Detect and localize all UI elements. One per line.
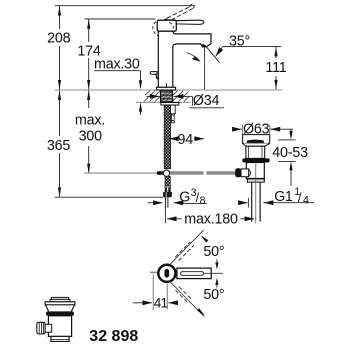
hose collar above nut [165, 186, 171, 192]
flexible supply hose (braided lower) [165, 176, 170, 186]
svg-text:max.: max. [75, 112, 105, 128]
top view: lever [177, 268, 223, 279]
label 35 degrees with leader [216, 34, 281, 57]
top view: rod stub left [150, 271, 157, 273]
side knob stem [45, 324, 52, 332]
pop-up pull rod knob behind body [150, 72, 166, 88]
top view: lowered lever dashed at 50 deg down [171, 283, 205, 317]
drain lower body [246, 163, 264, 179]
label diameter 34 with leader [147, 93, 225, 109]
top view: cartridge pill [165, 269, 170, 278]
faucet cartridge cap [157, 20, 176, 31]
drain flange cylinder [243, 135, 270, 144]
threaded shank through deck [161, 90, 173, 102]
extension line bottom of hoses (365 ref) [55, 196, 163, 198]
extension line 174 ref [85, 18, 156, 20]
O-ring [46, 311, 74, 315]
aerator stream direction line (vertical) [204, 46, 206, 90]
dimension 94 (spout reach) [169, 132, 204, 148]
top view: raised lever dashed at 50 deg up [170, 230, 208, 264]
pop-up rod under deck [171, 105, 176, 123]
drain washer band [242, 158, 269, 162]
dimension 208 [47, 6, 71, 90]
svg-text:40-53: 40-53 [272, 145, 308, 161]
label G3/8 [148, 187, 207, 207]
dimension 111 (outlet height) [265, 47, 286, 90]
G3/8 connection nut [163, 192, 172, 197]
svg-text:8: 8 [200, 195, 206, 207]
svg-text:41: 41 [154, 296, 168, 311]
flange rim [45, 302, 75, 305]
faucet lever swing dashed arc left of cap [153, 22, 158, 36]
dimension 41 (top view) [133, 275, 178, 311]
faucet base flange [157, 87, 176, 90]
supply pipe below nut [165, 197, 168, 207]
angle arrows beside lever [215, 259, 218, 287]
drain axis line [255, 164, 257, 224]
dimension max.180 [165, 206, 254, 227]
svg-text:32 898: 32 898 [89, 328, 138, 345]
deck bottom surface line [136, 101, 191, 103]
svg-text:300: 300 [79, 129, 103, 145]
dimension 40-53 (drain deck range) [272, 129, 308, 186]
svg-text:365: 365 [47, 138, 71, 154]
svg-text:50°: 50° [203, 244, 224, 260]
svg-text:208: 208 [47, 31, 71, 47]
label 50 degrees upper [203, 244, 224, 260]
top view: faucet base circle [158, 265, 175, 282]
dimension max.30 (deck thickness) [94, 56, 142, 115]
faucet lever (horizontal) [176, 20, 204, 24]
faucet lever swing dashed arc inside cap right [165, 19, 174, 29]
faucet raised-lever dashed outline [167, 5, 195, 21]
faucet body and spout [158, 31, 211, 88]
horizontal pop-up linkage rod [84, 168, 241, 177]
product number 32 898 [89, 328, 138, 345]
svg-text:111: 111 [265, 60, 286, 76]
knurled knob [37, 322, 45, 334]
svg-text:/: / [298, 190, 302, 205]
flange taper [45, 305, 74, 312]
svg-text:G1: G1 [274, 189, 293, 205]
svg-text:35°: 35° [229, 34, 250, 50]
dimension 365 [47, 90, 71, 196]
plug cap [51, 297, 68, 299]
svg-text:4: 4 [303, 195, 309, 207]
svg-text:Ø34: Ø34 [193, 93, 220, 109]
svg-text:max.30: max.30 [94, 56, 140, 72]
label G1 1/4 with leader [241, 186, 314, 207]
deck hatching right [173, 91, 189, 102]
rod socket on drain [241, 169, 251, 177]
pop-up waste product (bottom left) [37, 297, 75, 341]
shank washer under deck [161, 103, 179, 106]
svg-text:94: 94 [177, 132, 193, 148]
dimension diameter 63 [233, 121, 293, 137]
dimension max.300 (deck to supply) [75, 90, 105, 173]
label 50 degrees lower [203, 287, 224, 303]
extension line top (208 ref, top of raised lever) [55, 5, 192, 7]
body [48, 316, 71, 337]
drain upper body [246, 146, 265, 158]
svg-text:50°: 50° [203, 287, 224, 303]
deck hatching left [144, 91, 160, 102]
drain plug band [247, 140, 264, 143]
flexible supply hose (braided upper) [164, 105, 170, 169]
dimension 174 [77, 19, 101, 89]
stream swing arc arrow [187, 53, 202, 62]
drain tailpipe [252, 182, 260, 222]
hose ball fitting at rod crossing [163, 170, 169, 176]
deck top surface line [55, 89, 283, 91]
svg-text:max.180: max.180 [184, 212, 238, 228]
bottom tailpiece [51, 336, 69, 341]
svg-text:Ø63: Ø63 [243, 121, 270, 137]
drain slip nut [248, 179, 265, 183]
drain flange dish taper [243, 143, 270, 146]
aerator stream 35deg diagonal [205, 45, 220, 62]
